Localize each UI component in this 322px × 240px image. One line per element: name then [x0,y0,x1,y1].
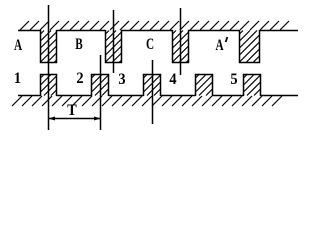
svg-text:B: B [75,35,82,52]
svg-text:A: A [215,36,223,53]
svg-text:T: T [67,101,77,119]
svg-text:1: 1 [14,69,21,87]
svg-text:5: 5 [230,70,238,88]
svg-text:3: 3 [118,70,126,88]
svg-text:4: 4 [169,70,177,88]
svg-text:2: 2 [76,69,83,87]
svg-text:A: A [14,36,22,53]
svg-text:C: C [146,35,154,52]
